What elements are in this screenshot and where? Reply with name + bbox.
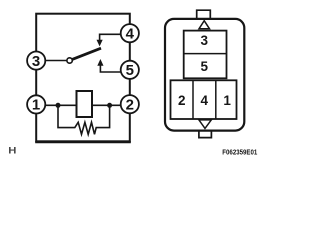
svg-text:5: 5 xyxy=(200,59,208,74)
svg-text:1: 1 xyxy=(223,93,231,108)
svg-text:1: 1 xyxy=(32,97,40,114)
svg-text:2: 2 xyxy=(126,96,134,113)
svg-text:H: H xyxy=(8,146,16,156)
svg-text:3: 3 xyxy=(201,33,209,48)
svg-text:F062359E01: F062359E01 xyxy=(222,147,258,156)
svg-text:4: 4 xyxy=(201,93,209,108)
svg-text:4: 4 xyxy=(126,25,135,42)
svg-text:2: 2 xyxy=(178,93,186,108)
svg-text:5: 5 xyxy=(126,62,134,79)
svg-text:3: 3 xyxy=(32,53,40,70)
